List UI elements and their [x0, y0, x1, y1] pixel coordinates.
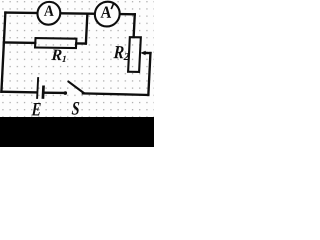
wire: wiper arm horizontal	[145, 52, 151, 54]
wire: junction riser up to top wire	[86, 14, 87, 44]
wire: bottom wire left segment to battery	[1, 91, 36, 94]
wire: switch to bottom-right corner	[83, 93, 149, 95]
ammeter A' prime tick	[112, 4, 114, 8]
ammeter A' circle	[94, 1, 120, 26]
svg-text:A: A	[100, 3, 112, 22]
resistor R1 body	[35, 38, 76, 48]
wire: from A' corner down to R2 top	[134, 14, 135, 37]
battery E: long positive plate	[36, 78, 39, 98]
ammeter A circle	[37, 2, 61, 25]
wire: right vertical up to wiper arm	[148, 53, 150, 95]
rheostat R2 wiper arrowhead	[140, 51, 146, 56]
wire: R1 to junction riser	[76, 42, 86, 44]
wire: top wire from top-left corner to right corner	[5, 13, 134, 15]
paper background	[0, 0, 154, 147]
black band at bottom	[0, 117, 154, 147]
wire: left vertical wire	[1, 13, 5, 92]
wire: R1 branch from left wire	[4, 41, 35, 44]
switch S: contact dot	[63, 91, 67, 95]
wire: battery to switch contact	[44, 91, 63, 94]
battery E: short negative plate	[42, 87, 45, 98]
svg-text:A: A	[44, 3, 56, 20]
svg-text:S: S	[71, 99, 80, 120]
switch S: open blade	[68, 82, 84, 93]
resistor R2 body	[128, 37, 141, 72]
